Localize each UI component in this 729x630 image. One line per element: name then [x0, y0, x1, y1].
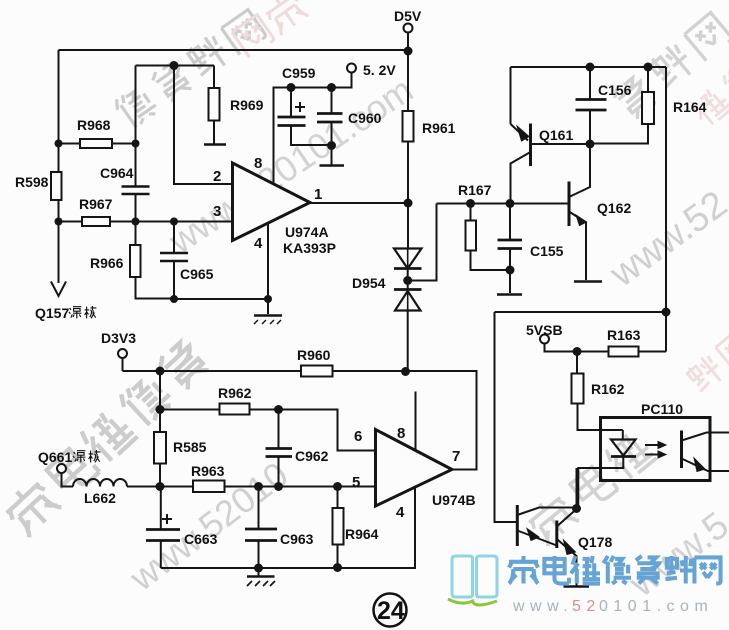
- ground C963: [258, 568, 260, 576]
- node R164 top: [644, 63, 653, 72]
- capacitor C964: [135, 144, 137, 222]
- phototransistor PC110: [680, 431, 683, 469]
- capacitor C156: [589, 67, 591, 144]
- resistor R964: [337, 487, 339, 509]
- capacitor C959: [291, 88, 332, 146]
- wire D954 jumper: [408, 204, 437, 281]
- node C965 top junction: [170, 218, 178, 226]
- capacitor C959 polarity: [295, 102, 305, 112]
- svg-text:C155: C155: [530, 243, 564, 259]
- node C965 bottom junction: [170, 295, 178, 303]
- op-amp U974B: [376, 430, 453, 507]
- op-amp U974A: [233, 163, 311, 241]
- node R585 bottom junction: [156, 482, 165, 491]
- ground C155: [497, 293, 522, 296]
- watermark CJK top-right corner: [611, 11, 729, 121]
- resistor R966: [135, 222, 137, 246]
- node pin2 junction: [170, 61, 179, 70]
- ground U974A: [254, 314, 282, 317]
- terminal 5VSB: [540, 335, 549, 344]
- node C962 bottom junction: [274, 482, 283, 491]
- node C959/C960 bottom junction: [327, 141, 336, 150]
- svg-text:5: 5: [352, 474, 360, 491]
- svg-text:R585: R585: [173, 439, 207, 455]
- wire Q178 left vertical: [495, 312, 518, 522]
- svg-text:R966: R966: [90, 255, 124, 271]
- svg-text:D954: D954: [352, 275, 386, 291]
- svg-text:8: 8: [254, 155, 262, 172]
- node D954 mid junction: [403, 276, 412, 285]
- node C155 top: [506, 199, 515, 208]
- resistor R962: [160, 410, 376, 451]
- logo book base: [448, 599, 497, 605]
- node R962 left junction: [156, 405, 165, 414]
- transistor Q178b: [555, 521, 558, 549]
- svg-text:D5V: D5V: [394, 8, 422, 24]
- node R968 right junction: [132, 140, 140, 148]
- node R964 bottom junction: [333, 563, 342, 572]
- svg-text:8: 8: [397, 425, 405, 442]
- node C959 top: [287, 83, 296, 92]
- terminal D3V3: [118, 349, 127, 358]
- resistor R961: [403, 111, 414, 142]
- capacitor C963: [258, 487, 260, 569]
- svg-text:C964: C964: [100, 165, 134, 181]
- node D5V junction: [404, 47, 413, 56]
- node right rail junction: [662, 308, 671, 317]
- node R964 top junction: [333, 482, 342, 491]
- node C155 bottom junction: [506, 266, 515, 275]
- svg-text:3: 3: [213, 203, 221, 220]
- page number 24: [374, 594, 407, 627]
- svg-text:C960: C960: [348, 110, 382, 126]
- wire feedback up: [135, 66, 137, 144]
- resistor R164: [647, 67, 649, 92]
- resistor R968: [59, 143, 136, 145]
- svg-text:1: 1: [314, 186, 322, 203]
- svg-text:R969: R969: [230, 97, 264, 113]
- svg-text:KA393P: KA393P: [283, 240, 336, 256]
- svg-text:52: 52: [572, 598, 601, 615]
- resistor R585: [159, 410, 161, 433]
- LED PC110: [622, 430, 624, 440]
- diode D954 top: [407, 203, 409, 249]
- wire rail to Q162: [437, 203, 570, 205]
- svg-text:R960: R960: [297, 347, 331, 363]
- resistor R963: [193, 481, 225, 493]
- wire right vertical: [665, 67, 667, 352]
- node C960 top: [327, 83, 336, 92]
- node C963 bottom junction: [254, 564, 263, 573]
- wire left vertical: [58, 50, 60, 172]
- resistor R967: [82, 217, 110, 226]
- svg-text:Q161: Q161: [539, 127, 573, 143]
- wire bottom rail A: [174, 298, 268, 300]
- wire Q157 stub: [58, 222, 60, 283]
- svg-text:C156: C156: [598, 82, 632, 98]
- svg-text:7: 7: [452, 448, 460, 465]
- resistor R167: [470, 204, 472, 221]
- node C156 top: [586, 63, 595, 72]
- svg-text:C959: C959: [282, 65, 316, 81]
- resistor R960: [301, 366, 333, 377]
- terminal 5.2V: [347, 64, 356, 73]
- svg-text:R963: R963: [191, 463, 225, 479]
- wire pin5 rail: [127, 486, 376, 488]
- wire pin4 vertical: [267, 223, 269, 314]
- node C963 top junction: [254, 482, 263, 491]
- svg-text:R964: R964: [345, 526, 379, 542]
- wire top rail2: [511, 66, 667, 68]
- wire rail y371: [123, 371, 477, 470]
- wire pin8B stub: [415, 392, 417, 451]
- wire rail y312: [495, 311, 667, 313]
- capacitor C155: [509, 204, 511, 294]
- svg-text:2: 2: [213, 168, 221, 185]
- node C156 bottom: [586, 140, 595, 149]
- svg-text:Q178: Q178: [578, 534, 612, 550]
- watermark CJK top-left: [112, 8, 266, 130]
- svg-text:R598: R598: [15, 174, 49, 190]
- node R162 top: [573, 347, 582, 356]
- capacitor C965: [173, 222, 175, 300]
- resistor R162: [576, 352, 578, 374]
- node C962 top junction: [274, 405, 283, 414]
- node pin1 junction: [404, 199, 413, 208]
- terminal Q661: [57, 464, 66, 473]
- svg-text:R167: R167: [458, 182, 492, 198]
- svg-text:4: 4: [254, 235, 263, 252]
- svg-text:5. 2V: 5. 2V: [363, 62, 396, 78]
- watermark CJK bottom-right (quadrant4): [524, 428, 657, 546]
- terminal D5V: [404, 24, 413, 33]
- svg-text:U974A: U974A: [285, 224, 329, 240]
- capacitor C663: [160, 487, 162, 569]
- ground R969: [204, 143, 226, 146]
- svg-text:D3V3: D3V3: [101, 330, 136, 346]
- svg-text:L662: L662: [84, 490, 116, 506]
- optocoupler PC110 box: [601, 418, 711, 481]
- node C964 bottom junction: [132, 218, 140, 226]
- transistor Q178a: [516, 505, 519, 546]
- resistor R163: [577, 351, 666, 353]
- svg-text:C962: C962: [295, 448, 329, 464]
- svg-text:R967: R967: [79, 196, 113, 212]
- light arrows: [645, 445, 659, 455]
- wire pin8 vertical: [274, 73, 352, 185]
- svg-text:Q661: Q661: [38, 449, 72, 465]
- svg-text:www.: www.: [512, 598, 573, 615]
- svg-text:C663: C663: [184, 531, 218, 547]
- node R968 left junction: [55, 140, 63, 148]
- node D954/pin7 junction: [401, 367, 410, 376]
- svg-text:C965: C965: [180, 266, 214, 282]
- node Q178 collector junction: [572, 504, 581, 513]
- wire R967 rail / pin3: [59, 221, 233, 223]
- svg-text:Q157: Q157: [35, 305, 69, 321]
- capacitor C663 polarity: [162, 514, 172, 524]
- logo CJK text: [509, 556, 721, 584]
- pink fragments: [231, 0, 309, 57]
- wire D5V vertical: [407, 33, 409, 112]
- watermark CJK bottom-left: [1, 338, 211, 537]
- capacitor C962: [278, 410, 280, 487]
- svg-text:R961: R961: [422, 120, 456, 136]
- svg-text:R163: R163: [607, 327, 641, 343]
- svg-text:C963: C963: [280, 531, 314, 547]
- resistor R969: [213, 66, 215, 89]
- wire R585 col: [159, 371, 161, 410]
- svg-text:24: 24: [377, 597, 405, 625]
- node R967 left junction: [55, 218, 63, 226]
- svg-text:0101.com: 0101.com: [599, 598, 713, 615]
- node R167 top: [466, 199, 475, 208]
- wire R598 bottom: [58, 200, 60, 222]
- node Q157 arrow: [51, 282, 66, 297]
- transistor Q161: [510, 67, 512, 124]
- wire pin2 vertical: [174, 66, 233, 185]
- svg-text:PC110: PC110: [641, 401, 683, 417]
- node pin4 junction: [264, 295, 272, 303]
- diode D954 bottom: [394, 288, 422, 291]
- svg-text:5VSB: 5VSB: [526, 322, 563, 338]
- ground Q178: [564, 585, 590, 588]
- ground Q162: [574, 280, 602, 283]
- inductor L662: [73, 479, 127, 487]
- svg-text:R162: R162: [591, 381, 625, 397]
- svg-text:6: 6: [354, 428, 362, 445]
- ground C960: [320, 164, 345, 167]
- wire top rail: [59, 49, 409, 51]
- wire bottom rail B: [161, 488, 415, 568]
- resistor R598: [51, 172, 62, 200]
- svg-text:R164: R164: [673, 99, 707, 115]
- svg-text:U974B: U974B: [432, 492, 476, 508]
- node R585 top junction: [156, 367, 165, 376]
- svg-text:R968: R968: [77, 117, 111, 133]
- svg-text:4: 4: [396, 504, 405, 521]
- wire y65 rail: [136, 65, 215, 67]
- logo book icon: [452, 556, 497, 597]
- svg-text:Q162: Q162: [597, 200, 631, 216]
- svg-text:R962: R962: [218, 385, 252, 401]
- wire pin1 output: [310, 202, 408, 204]
- transistor Q162: [568, 182, 571, 227]
- capacitor C960: [331, 88, 333, 166]
